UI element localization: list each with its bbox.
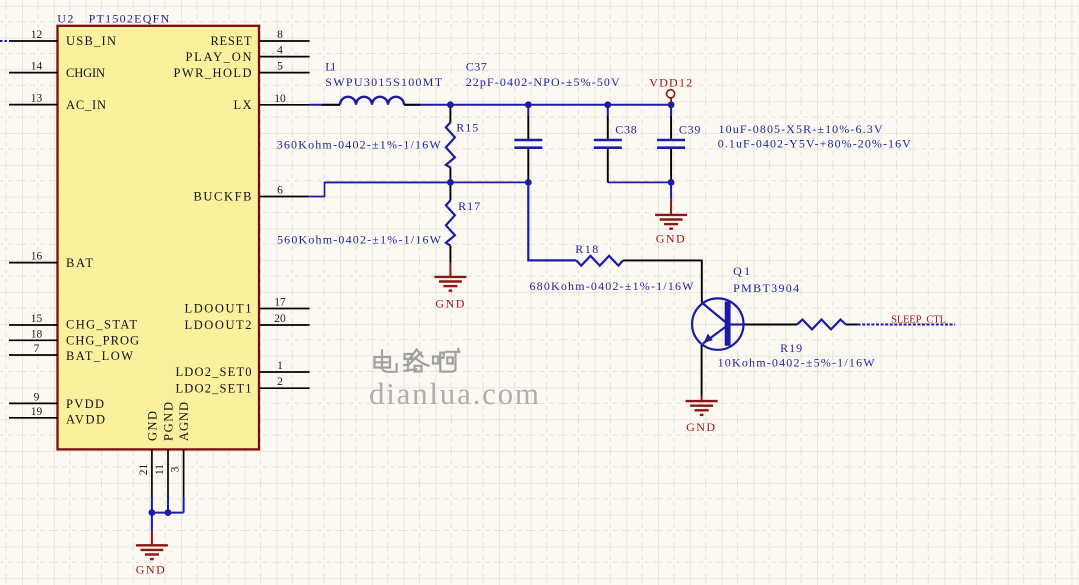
svg-text:10Kohm-0402-±5%-1/16W: 10Kohm-0402-±5%-1/16W bbox=[718, 356, 876, 370]
svg-text:GND: GND bbox=[145, 411, 159, 441]
svg-text:BAT: BAT bbox=[66, 256, 93, 270]
svg-text:C38: C38 bbox=[615, 122, 637, 136]
svg-text:LX: LX bbox=[234, 98, 252, 112]
svg-text:13: 13 bbox=[31, 93, 43, 105]
svg-text:Q1: Q1 bbox=[733, 264, 750, 278]
svg-text:R18: R18 bbox=[575, 242, 598, 256]
svg-text:LDOOUT2: LDOOUT2 bbox=[185, 318, 252, 332]
svg-text:USB_IN: USB_IN bbox=[66, 34, 116, 48]
svg-text:PT1502EQFN: PT1502EQFN bbox=[89, 12, 170, 26]
svg-text:22pF-0402-NPO-±5%-50V: 22pF-0402-NPO-±5%-50V bbox=[466, 75, 620, 89]
svg-text:PVDD: PVDD bbox=[66, 397, 104, 411]
svg-text:AGND: AGND bbox=[177, 402, 191, 441]
svg-text:LDOOUT1: LDOOUT1 bbox=[185, 302, 252, 316]
svg-text:10uF-0805-X5R-±10%-6.3V: 10uF-0805-X5R-±10%-6.3V bbox=[719, 122, 883, 136]
svg-text:U2: U2 bbox=[57, 12, 73, 26]
svg-text:C37: C37 bbox=[466, 60, 487, 74]
svg-text:R15: R15 bbox=[456, 121, 478, 135]
svg-text:16: 16 bbox=[31, 251, 43, 263]
svg-text:CHG_PROG: CHG_PROG bbox=[66, 333, 139, 347]
svg-text:1: 1 bbox=[277, 360, 283, 372]
svg-text:20: 20 bbox=[274, 313, 286, 325]
svg-text:C39: C39 bbox=[679, 122, 701, 136]
svg-text:17: 17 bbox=[274, 297, 286, 309]
svg-text:9: 9 bbox=[34, 391, 40, 403]
svg-text:5: 5 bbox=[277, 61, 283, 73]
svg-text:R19: R19 bbox=[780, 341, 802, 355]
svg-text:LDO2_SET0: LDO2_SET0 bbox=[176, 365, 252, 379]
svg-text:15: 15 bbox=[31, 313, 43, 325]
svg-text:PLAY_ON: PLAY_ON bbox=[186, 50, 252, 64]
svg-text:12: 12 bbox=[31, 29, 43, 41]
svg-text:BAT_LOW: BAT_LOW bbox=[66, 349, 133, 363]
svg-text:SWPU3015S100MT: SWPU3015S100MT bbox=[325, 75, 442, 89]
svg-text:AC_IN: AC_IN bbox=[66, 98, 106, 112]
svg-text:GND: GND bbox=[686, 420, 715, 434]
svg-text:21: 21 bbox=[138, 464, 150, 476]
svg-text:2: 2 bbox=[277, 376, 283, 388]
svg-text:GND: GND bbox=[136, 563, 165, 577]
svg-text:360Kohm-0402-±1%-1/16W: 360Kohm-0402-±1%-1/16W bbox=[277, 137, 442, 151]
svg-text:3: 3 bbox=[170, 466, 182, 472]
svg-text:560Kohm-0402-±1%-1/16W: 560Kohm-0402-±1%-1/16W bbox=[277, 233, 442, 247]
svg-text:R17: R17 bbox=[458, 199, 480, 213]
svg-text:0.1uF-0402-Y5V-+80%-20%-16V: 0.1uF-0402-Y5V-+80%-20%-16V bbox=[718, 136, 911, 150]
svg-text:GND: GND bbox=[656, 232, 685, 246]
svg-text:19: 19 bbox=[31, 406, 43, 418]
svg-text:PGND: PGND bbox=[161, 402, 175, 441]
svg-text:SLEEP_CTL: SLEEP_CTL bbox=[891, 315, 946, 326]
svg-text:4: 4 bbox=[277, 45, 283, 57]
svg-text:L1: L1 bbox=[325, 60, 336, 74]
svg-text:14: 14 bbox=[31, 61, 43, 73]
svg-text:680Kohm-0402-±1%-1/16W: 680Kohm-0402-±1%-1/16W bbox=[530, 279, 695, 293]
svg-text:7: 7 bbox=[34, 343, 40, 355]
svg-text:6: 6 bbox=[277, 185, 283, 197]
svg-text:AVDD: AVDD bbox=[66, 412, 105, 426]
svg-text:RESET: RESET bbox=[211, 34, 252, 48]
svg-text:VDD12: VDD12 bbox=[649, 75, 692, 89]
svg-text:PMBT3904: PMBT3904 bbox=[733, 281, 799, 295]
svg-text:CHG_STAT: CHG_STAT bbox=[66, 318, 137, 332]
svg-text:PWR_HOLD: PWR_HOLD bbox=[174, 66, 252, 80]
svg-text:18: 18 bbox=[31, 328, 43, 340]
svg-text:10: 10 bbox=[274, 93, 286, 105]
svg-text:11: 11 bbox=[154, 464, 166, 475]
svg-text:CHGIN: CHGIN bbox=[66, 66, 105, 80]
svg-text:8: 8 bbox=[277, 29, 283, 41]
svg-text:GND: GND bbox=[435, 297, 464, 311]
svg-text:LDO2_SET1: LDO2_SET1 bbox=[176, 381, 252, 395]
